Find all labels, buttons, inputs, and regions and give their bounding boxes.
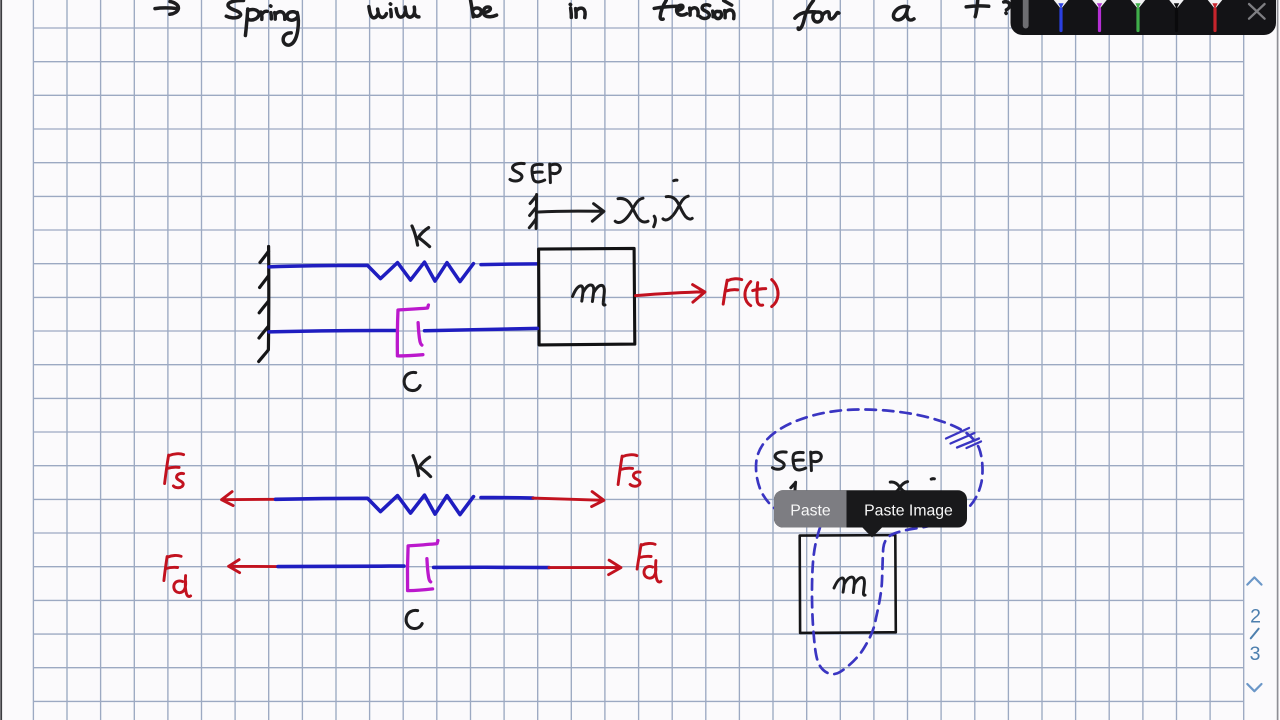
svg-text:3: 3: [1250, 643, 1261, 665]
tool: blue pen: [1051, 0, 1072, 31]
label SEP (upper): [510, 163, 524, 181]
label Fd left (red): [164, 555, 191, 596]
damper force arrow right (red): [549, 560, 621, 575]
damper c symbol (FBD, magenta): [407, 541, 437, 591]
tool: magenta pen: [1089, 0, 1110, 31]
word "tension": [654, 0, 681, 19]
lasso closing scribble: [946, 428, 981, 448]
spring k (upper, blue): [269, 262, 538, 282]
tool: gray pencil barrel: [1023, 0, 1029, 29]
damper connecting line left (FBD, blue): [278, 564, 404, 568]
partial strokes behind paste menu: [791, 482, 796, 490]
label k (upper): [412, 226, 430, 247]
paste menu callout pointer: [861, 526, 884, 538]
svg-text:Paste Image: Paste Image: [864, 503, 953, 520]
page nav slash: [1251, 629, 1259, 639]
plus sign: [966, 0, 989, 17]
label m (selected box): [834, 577, 865, 595]
label m (upper): [573, 285, 606, 305]
damper c symbol (magenta): [397, 305, 428, 356]
SEP reference line with hatches: [529, 195, 536, 229]
damper force arrow left (red): [229, 560, 278, 573]
partial glyph by toolbar: [1004, 2, 1010, 14]
svg-text:2: 2: [1250, 606, 1261, 628]
label F(t) (red): [723, 279, 778, 307]
annotation arrow (top note bullet): [155, 2, 178, 15]
pen toolbar container: [1011, 0, 1277, 35]
svg-text:Paste: Paste: [790, 503, 831, 520]
label Fd right (red): [637, 543, 661, 582]
label Fs left (red): [165, 454, 184, 488]
word "for": [798, 1, 813, 30]
paste menu highlighted "Paste" segment: [774, 490, 847, 527]
word "will": [369, 7, 387, 18]
label c (upper): [404, 372, 420, 390]
word "be": [471, 1, 482, 17]
damper c connecting lines (blue): [269, 328, 538, 332]
label x , xdot (upper): [615, 198, 648, 222]
toolbar close button (X): [1249, 4, 1265, 19]
page nav chevron up: [1247, 577, 1261, 584]
word "in": [570, 4, 571, 17]
mass m box (upper): [539, 248, 635, 345]
mass m box (selected): [800, 535, 896, 633]
tool: black pen: [1166, 0, 1187, 31]
word "a": [893, 6, 914, 20]
lasso selection (dashed): [756, 409, 983, 674]
spring k (FBD, blue): [276, 495, 534, 514]
wall (fixed support) with hatching: [259, 247, 269, 362]
tool: red pen: [1205, 0, 1226, 31]
label k (FBD): [413, 456, 431, 477]
damper connecting line right (FBD, blue): [434, 565, 549, 569]
spring force arrow left (red shaft + head): [222, 492, 276, 506]
word "Spring": [226, 0, 243, 17]
tool: green pen: [1128, 0, 1149, 31]
force arrow F(t) (red): [636, 285, 705, 303]
displacement arrow x, xdot: [539, 204, 604, 222]
label SEP (right, selected): [773, 452, 935, 492]
paste context menu container: [774, 490, 967, 527]
label c (FBD): [406, 610, 422, 628]
spring force arrow right (red): [533, 492, 604, 507]
page nav chevron down: [1247, 684, 1261, 691]
label Fs right (red): [618, 455, 640, 487]
